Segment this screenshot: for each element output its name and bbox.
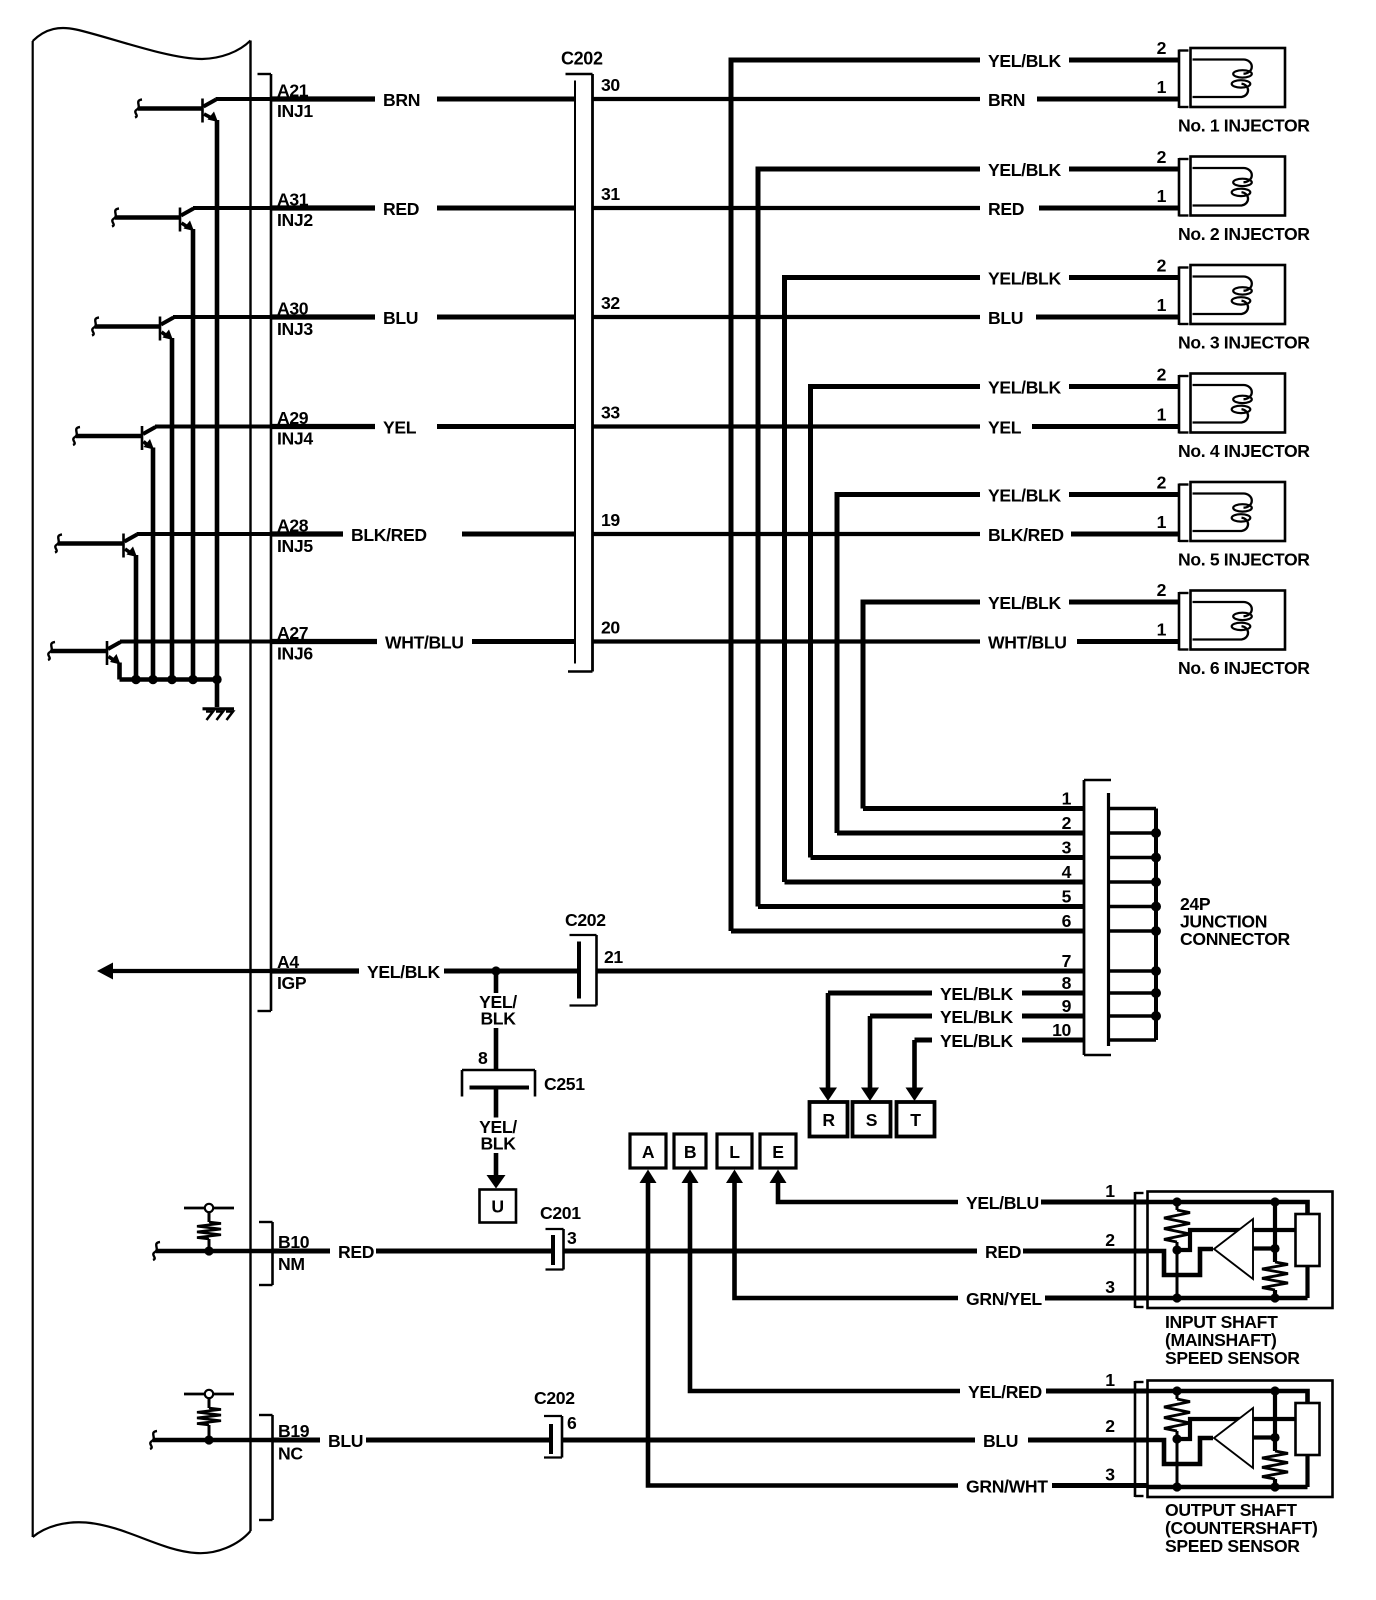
wire YEL/BLK junction pin 9 (corner)	[870, 1014, 932, 1019]
svg-text:6: 6	[567, 1413, 577, 1433]
junction bus dot pin 3	[1151, 853, 1161, 863]
svg-text:No. 6 INJECTOR: No. 6 INJECTOR	[1178, 658, 1310, 678]
wire YEL/BLK bus 4 to junction row 3	[811, 855, 1085, 860]
wire NM inside ECU	[153, 1242, 273, 1260]
arrow IGP to left (continues)	[97, 963, 113, 980]
wire GRN/YEL to input sensor	[1045, 1296, 1148, 1301]
wire BRN ECU to C202 left segment	[216, 97, 273, 101]
junction pin 3 stub	[1109, 856, 1157, 860]
output sensor bias bus	[1262, 1391, 1288, 1487]
transistor Q6 (INJ6 driver)	[48, 641, 121, 665]
output sensor dots pin1	[1172, 1386, 1181, 1395]
output sensor body	[1148, 1381, 1333, 1498]
svg-text:No. 2 INJECTOR: No. 2 INJECTOR	[1178, 224, 1310, 244]
svg-text:INPUT SHAFT: INPUT SHAFT	[1165, 1312, 1278, 1332]
svg-text:YEL/BLK: YEL/BLK	[988, 160, 1061, 180]
wire YEL/BLK bus 2 to junction row 5	[758, 904, 1084, 909]
wire YEL/BLK label to junction pin 10	[1022, 1038, 1084, 1043]
ground (chassis)	[203, 709, 235, 720]
arrow into U	[494, 1153, 499, 1177]
svg-text:10: 10	[1052, 1020, 1071, 1040]
wire rail to ground	[215, 680, 220, 708]
input sensor pickup to ground	[1305, 1266, 1309, 1298]
svg-text:21: 21	[604, 947, 623, 967]
svg-text:31: 31	[601, 184, 620, 204]
input sensor amplifier	[1214, 1219, 1253, 1279]
svg-text:C202: C202	[561, 49, 603, 69]
svg-text:6: 6	[1062, 911, 1072, 931]
junction pin 9 stub	[1109, 1014, 1157, 1018]
junction pin 2 stub	[1109, 831, 1157, 835]
ECU torn-edge outline left side	[32, 41, 34, 1537]
svg-text:RED: RED	[988, 199, 1024, 219]
wire E to YEL/BLU (input sensor pin 1)	[778, 1181, 958, 1202]
wire RED C202 to label (right)	[593, 206, 981, 210]
svg-text:No. 3 INJECTOR: No. 3 INJECTOR	[1178, 333, 1310, 353]
wire emitter Q4 to ground rail	[151, 448, 156, 680]
svg-text:C202: C202	[565, 910, 606, 930]
wire emitter common rail	[120, 677, 220, 682]
svg-text:(COUNTERSHAFT): (COUNTERSHAFT)	[1165, 1518, 1317, 1538]
arrow into L	[726, 1170, 743, 1184]
svg-text:2: 2	[1105, 1416, 1115, 1436]
svg-text:No. 4 INJECTOR: No. 4 INJECTOR	[1178, 441, 1310, 461]
wire BLK/RED ECU to C202 left segment	[137, 532, 273, 536]
svg-text:WHT/BLU: WHT/BLU	[988, 633, 1067, 653]
svg-text:BLK: BLK	[480, 1134, 516, 1154]
wire RED to input sensor pin 2	[1023, 1249, 1148, 1254]
injector 1 body (No. 1 INJECTOR)	[1191, 48, 1286, 107]
junction pin 5 stub	[1109, 905, 1157, 909]
svg-text:3: 3	[1105, 1465, 1115, 1485]
transistor Q5 (INJ5 driver)	[55, 534, 137, 558]
output sensor amp input stub	[1253, 1435, 1275, 1439]
svg-text:NC: NC	[278, 1444, 303, 1464]
injector 4 connector bracket	[1179, 375, 1189, 434]
wire YEL/BLK injector 5 supply (corner)	[837, 495, 980, 834]
junction bus dot pin 6	[1151, 926, 1161, 936]
svg-text:30: 30	[601, 75, 620, 95]
wire BLK/RED label to C202	[462, 532, 575, 537]
wire YEL/BLK label to injector 1 pin 2	[1069, 58, 1179, 63]
wire RED C201 to label (right)	[564, 1249, 978, 1254]
wire YEL/BLK label to junction pin 9	[1022, 1014, 1084, 1019]
input sensor amp input stub	[1253, 1246, 1275, 1250]
wire YEL/BLU to input sensor	[1041, 1200, 1148, 1205]
wire YEL/RED to output sensor	[1046, 1389, 1148, 1394]
bias network NM: link circle	[184, 1204, 234, 1212]
svg-text:33: 33	[601, 403, 620, 423]
svg-text:1: 1	[1157, 77, 1167, 97]
svg-text:YEL/BLK: YEL/BLK	[940, 984, 1013, 1004]
svg-text:RED: RED	[383, 199, 419, 219]
input sensor resistor R1	[1164, 1202, 1190, 1297]
transistor Q1 (INJ1 driver)	[135, 99, 218, 123]
svg-text:20: 20	[601, 618, 620, 638]
output sensor pin 1 wire internal	[1148, 1391, 1308, 1403]
wire YEL/BLK label to injector 6 pin 2	[1069, 600, 1179, 605]
ECU connector bracket A-row	[258, 74, 272, 1011]
svg-text:A: A	[642, 1142, 655, 1162]
arrow into E	[770, 1170, 787, 1184]
arrow into A	[640, 1170, 657, 1184]
svg-text:YEL/BLK: YEL/BLK	[940, 1031, 1013, 1051]
svg-text:YEL/BLK: YEL/BLK	[988, 486, 1061, 506]
svg-text:2: 2	[1157, 38, 1167, 58]
wire YEL/BLK injector 1 supply (corner)	[731, 60, 980, 931]
arrow into S	[868, 1016, 873, 1089]
24P junction connector body	[1084, 780, 1111, 1055]
wire RED ECU to C202 left segment	[193, 206, 272, 210]
svg-text:YEL/BLK: YEL/BLK	[988, 593, 1061, 613]
svg-text:1: 1	[1157, 512, 1167, 532]
svg-text:BLU: BLU	[983, 1431, 1018, 1451]
injector 4 body (No. 4 INJECTOR)	[1191, 374, 1286, 433]
wire WHT/BLU C202 to label (right)	[593, 639, 981, 643]
svg-text:B: B	[684, 1142, 696, 1162]
output sensor resistor R1	[1164, 1391, 1190, 1486]
svg-text:T: T	[910, 1110, 921, 1130]
wire RED B10 to label	[273, 1249, 331, 1254]
input sensor pin 3 rail	[1148, 1296, 1308, 1301]
junction bus dot pin 9	[1151, 1011, 1161, 1021]
wire RED label to C202	[437, 206, 575, 211]
svg-text:1: 1	[1157, 186, 1167, 206]
svg-text:L: L	[729, 1142, 740, 1162]
input sensor pickup element	[1296, 1214, 1320, 1266]
junction pin 7 stub	[1109, 969, 1157, 973]
wire YEL/BLK junction pin 10 (corner)	[915, 1038, 933, 1043]
wire YEL/BLK bus 6 to junction row 1	[863, 806, 1084, 811]
wire YEL/BLK injector 4 supply (corner)	[811, 387, 981, 858]
junction bus dot pin 2	[1151, 828, 1161, 838]
svg-text:INJ4: INJ4	[277, 429, 313, 449]
svg-text:CONNECTOR: CONNECTOR	[1180, 929, 1291, 949]
wire emitter Q5 to ground rail	[134, 555, 139, 680]
output sensor amplifier	[1214, 1408, 1253, 1468]
svg-text:19: 19	[601, 510, 620, 530]
wire emitter Q6 to ground rail	[117, 663, 122, 680]
svg-text:5: 5	[1062, 887, 1072, 907]
terminal box T	[897, 1102, 935, 1137]
svg-text:1: 1	[1157, 405, 1167, 425]
svg-text:YEL/BLU: YEL/BLU	[966, 1193, 1039, 1213]
svg-text:BLU: BLU	[328, 1431, 363, 1451]
junction dot emitter rail 5	[212, 675, 221, 684]
svg-text:INJ1: INJ1	[277, 101, 313, 121]
svg-text:YEL/BLK: YEL/BLK	[940, 1007, 1013, 1027]
wire A to GRN/WHT (output sensor pin 3)	[648, 1181, 958, 1486]
ECU torn-edge outline right side	[249, 41, 251, 1532]
wire YEL/BLK injector 6 supply (corner)	[863, 602, 980, 809]
terminal box B	[674, 1134, 706, 1168]
wire WHT/BLU ECU to C202 left segment	[120, 640, 272, 644]
svg-text:GRN/WHT: GRN/WHT	[966, 1477, 1048, 1497]
input sensor bias bus	[1262, 1202, 1288, 1298]
svg-text:YEL/RED: YEL/RED	[968, 1382, 1042, 1402]
resistor NC bias	[197, 1398, 221, 1440]
wire YEL/BLK IGP label to C202	[444, 969, 581, 974]
transistor Q3 (INJ3 driver)	[92, 317, 174, 341]
svg-text:1: 1	[1062, 789, 1072, 809]
input sensor body	[1148, 1192, 1333, 1309]
svg-text:1: 1	[1157, 620, 1167, 640]
svg-text:OUTPUT SHAFT: OUTPUT SHAFT	[1165, 1500, 1297, 1520]
junction bus dot pin 5	[1151, 902, 1161, 912]
junction pin 1 stub	[1109, 807, 1157, 811]
svg-text:GRN/YEL: GRN/YEL	[966, 1289, 1042, 1309]
wire YEL/BLK label to injector 2 pin 2	[1069, 167, 1179, 172]
wire YEL/BLK label to C251	[494, 1028, 499, 1070]
injector 3 body (No. 3 INJECTOR)	[1191, 265, 1286, 324]
wire YEL C202 to label (right)	[593, 424, 981, 428]
input sensor dots pin1	[1172, 1197, 1181, 1206]
wire YEL/BLK IGP to junction pin 7	[597, 969, 1085, 974]
junction dot IGP branch	[491, 966, 500, 975]
wire BLU to injector 3 pin 1	[1036, 315, 1179, 320]
svg-text:1: 1	[1105, 1370, 1115, 1390]
wire emitter Q3 to ground rail	[170, 338, 175, 680]
wire YEL/BLK injector 3 supply (corner)	[785, 278, 981, 883]
svg-text:WHT/BLU: WHT/BLU	[385, 633, 464, 653]
wire YEL label to C202	[437, 424, 575, 429]
connector C202 pin 21 symbol	[570, 935, 597, 1006]
injector 6 body (No. 6 INJECTOR)	[1191, 591, 1286, 650]
junction bus dot pin 7	[1151, 966, 1161, 976]
wire BLK/RED to injector 5 pin 1	[1071, 532, 1179, 537]
svg-text:1: 1	[1105, 1181, 1115, 1201]
wire WHT/BLU label to C202	[472, 639, 575, 644]
wire BLK/RED C202 to label (right)	[593, 532, 981, 536]
output sensor pin 3 rail	[1148, 1485, 1308, 1490]
wire YEL/BLK label to injector 5 pin 2	[1069, 492, 1179, 497]
wire L to GRN/YEL (input sensor pin 3)	[735, 1181, 959, 1298]
svg-text:E: E	[772, 1142, 784, 1162]
svg-text:YEL/BLK: YEL/BLK	[988, 51, 1061, 71]
connector C201 pin 3 symbol	[546, 1229, 564, 1270]
svg-text:SPEED SENSOR: SPEED SENSOR	[1165, 1536, 1300, 1556]
ECU connector bracket B10	[259, 1222, 273, 1285]
svg-text:YEL: YEL	[383, 418, 417, 438]
wire GRN/WHT to output sensor	[1052, 1483, 1148, 1488]
arrow into T	[912, 1040, 917, 1089]
junction bus dot pin 4	[1151, 877, 1161, 887]
junction dot B10	[204, 1246, 213, 1255]
svg-text:IGP: IGP	[277, 973, 307, 993]
wire emitter Q1 to ground rail	[215, 120, 220, 680]
svg-text:2: 2	[1157, 473, 1167, 493]
output sensor feedback tap	[1177, 1419, 1296, 1439]
wire YEL/BLK label to injector 4 pin 2	[1069, 384, 1179, 389]
junction dot emitter rail 2	[148, 675, 157, 684]
junction dot emitter rail 4	[188, 675, 197, 684]
wire YEL/BLK below C251	[494, 1088, 499, 1118]
svg-text:(MAINSHAFT): (MAINSHAFT)	[1165, 1330, 1276, 1350]
wire B to YEL/RED (output sensor pin 1)	[690, 1181, 960, 1391]
svg-text:BLK/RED: BLK/RED	[988, 525, 1064, 545]
connector C202 (main harness, pins 30-33/19-20)	[566, 74, 593, 672]
terminal box E	[760, 1134, 796, 1168]
wire RED to injector 2 pin 1	[1039, 206, 1179, 211]
junction pin 4 stub	[1109, 880, 1157, 884]
junction pin 8 stub	[1109, 991, 1157, 995]
svg-text:RED: RED	[985, 1242, 1021, 1262]
svg-text:INJ5: INJ5	[277, 536, 313, 556]
svg-text:A4: A4	[277, 952, 299, 972]
svg-text:BLU: BLU	[988, 308, 1023, 328]
input sensor pin 2 wire internal	[1148, 1249, 1214, 1275]
wire YEL/BLK bus 3 to junction row 4	[785, 880, 1085, 885]
output sensor connector bracket	[1135, 1381, 1144, 1497]
wire BRN label to C202	[437, 97, 575, 102]
ECU connector bracket B19	[259, 1415, 273, 1520]
svg-text:S: S	[866, 1110, 878, 1130]
svg-text:2: 2	[1105, 1230, 1115, 1250]
transistor Q2 (INJ2 driver)	[112, 208, 194, 232]
wire YEL/BLK bus 1 to junction row 6	[731, 929, 1084, 934]
svg-text:1: 1	[1157, 295, 1167, 315]
wire YEL/BLK bus 5 to junction row 2	[837, 831, 1084, 836]
wire BLU to output sensor pin 2	[1028, 1438, 1148, 1443]
svg-text:4: 4	[1062, 862, 1072, 882]
wire YEL to injector 4 pin 1	[1032, 424, 1179, 429]
svg-text:8: 8	[1062, 973, 1072, 993]
wire NC inside ECU	[150, 1431, 273, 1449]
svg-text:3: 3	[567, 1228, 577, 1248]
wire BLU C202 to label (right)	[593, 315, 981, 319]
resistor NM bias	[197, 1212, 221, 1251]
svg-text:BLK/RED: BLK/RED	[351, 525, 427, 545]
svg-text:BLK: BLK	[480, 1009, 516, 1029]
svg-text:9: 9	[1062, 996, 1072, 1016]
svg-text:BRN: BRN	[383, 90, 420, 110]
svg-text:2: 2	[1157, 256, 1167, 276]
svg-text:YEL/BLK: YEL/BLK	[367, 962, 440, 982]
wire YEL ECU to C202 left segment	[155, 425, 272, 429]
transistor Q4 (INJ4 driver)	[73, 426, 156, 450]
arrow into R	[826, 993, 831, 1089]
svg-text:YEL: YEL	[988, 418, 1022, 438]
svg-text:SPEED SENSOR: SPEED SENSOR	[1165, 1348, 1300, 1368]
injector 6 connector bracket	[1179, 592, 1189, 651]
wire RED label to C201	[376, 1249, 555, 1254]
junction pin 10 stub	[1109, 1038, 1157, 1042]
output sensor pickup element	[1296, 1403, 1320, 1455]
junction dot emitter rail 3	[167, 675, 176, 684]
svg-text:3: 3	[1105, 1277, 1115, 1297]
injector 2 connector bracket	[1179, 158, 1189, 217]
output sensor pickup to ground	[1305, 1455, 1309, 1487]
wire BLU C202 to label (right)	[562, 1438, 975, 1443]
wire emitter Q2 to ground rail	[191, 229, 196, 680]
wire YEL/BLK junction pin 8 (corner)	[828, 991, 932, 996]
wire YEL/BLK label to injector 3 pin 2	[1069, 275, 1179, 280]
junction dot B19	[204, 1435, 213, 1444]
svg-text:U: U	[491, 1197, 503, 1217]
wire BRN C202 to label (right)	[593, 97, 981, 101]
svg-text:2: 2	[1062, 813, 1072, 833]
wire BLU B19 to label	[273, 1438, 321, 1443]
svg-text:YEL/BLK: YEL/BLK	[988, 269, 1061, 289]
wire WHT/BLU to injector 6 pin 1	[1077, 639, 1179, 644]
injector 1 connector bracket	[1179, 50, 1189, 109]
svg-text:R: R	[822, 1110, 835, 1130]
input sensor pin 1 wire internal	[1148, 1202, 1308, 1214]
wire BRN to injector 1 pin 1	[1037, 97, 1179, 102]
svg-text:No. 1 INJECTOR: No. 1 INJECTOR	[1178, 116, 1310, 136]
output sensor pin 2 wire internal	[1148, 1438, 1214, 1464]
svg-text:BLU: BLU	[383, 308, 418, 328]
wire BLU ECU to C202 left segment	[173, 315, 272, 319]
wire BLU label to C202	[366, 1438, 553, 1443]
svg-text:INJ6: INJ6	[277, 644, 313, 664]
wire YEL/BLK branch down from IGP	[494, 971, 499, 993]
terminal box U	[480, 1190, 517, 1223]
wire BLU label to C202	[437, 315, 575, 320]
connector C251 pin 8 symbol	[462, 1070, 535, 1097]
wire YEL/BLK IGP from arrow	[110, 969, 272, 973]
svg-text:C201: C201	[540, 1203, 581, 1223]
svg-text:YEL/BLK: YEL/BLK	[988, 378, 1061, 398]
svg-text:2: 2	[1157, 147, 1167, 167]
ECU torn-edge outline top curve	[33, 28, 251, 59]
svg-text:2: 2	[1157, 580, 1167, 600]
junction internal bus	[1154, 809, 1158, 1041]
input sensor connector bracket	[1135, 1192, 1144, 1308]
wire YEL/BLK label to junction pin 8	[1022, 991, 1084, 996]
svg-text:No. 5 INJECTOR: No. 5 INJECTOR	[1178, 550, 1310, 570]
junction bus dot pin 8	[1151, 988, 1161, 998]
bias network NC: link circle	[184, 1390, 234, 1398]
injector 2 body (No. 2 INJECTOR)	[1191, 157, 1286, 216]
terminal box A	[630, 1134, 666, 1168]
svg-text:3: 3	[1062, 838, 1072, 858]
junction pin 6 stub	[1109, 929, 1157, 933]
injector 5 body (No. 5 INJECTOR)	[1191, 482, 1286, 541]
svg-text:C251: C251	[544, 1074, 585, 1094]
svg-text:32: 32	[601, 293, 620, 313]
ECU torn-edge outline bottom curve	[33, 1522, 251, 1553]
injector 3 connector bracket	[1179, 267, 1189, 326]
input sensor feedback tap	[1177, 1230, 1296, 1250]
injector 5 connector bracket	[1179, 484, 1189, 543]
svg-text:8: 8	[478, 1048, 488, 1068]
terminal box L	[717, 1134, 752, 1168]
svg-text:C202: C202	[534, 1388, 575, 1408]
svg-text:7: 7	[1062, 951, 1072, 971]
svg-text:NM: NM	[278, 1254, 305, 1274]
wire YEL/BLK injector 2 supply (corner)	[758, 169, 980, 907]
terminal box R	[810, 1102, 848, 1137]
terminal box S	[853, 1102, 891, 1137]
junction dot emitter rail 1	[131, 675, 140, 684]
svg-text:INJ2: INJ2	[277, 210, 313, 230]
svg-text:RED: RED	[338, 1242, 374, 1262]
arrow into B	[682, 1170, 699, 1184]
svg-text:INJ3: INJ3	[277, 319, 313, 339]
svg-text:BRN: BRN	[988, 90, 1025, 110]
connector C202 pin 6 symbol	[544, 1416, 562, 1458]
svg-text:2: 2	[1157, 365, 1167, 385]
